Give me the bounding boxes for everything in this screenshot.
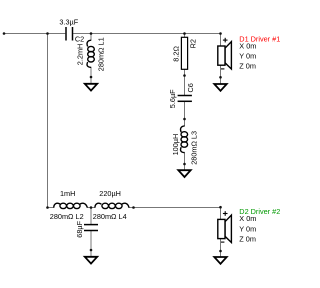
svg-text:X 0m: X 0m: [239, 42, 256, 51]
svg-text:280mΩ L4: 280mΩ L4: [93, 212, 127, 221]
svg-text:220µH: 220µH: [99, 189, 121, 198]
svg-text:1mH: 1mH: [60, 189, 75, 198]
svg-text:Z 0m: Z 0m: [239, 235, 256, 244]
svg-text:280mΩ L1: 280mΩ L1: [97, 37, 106, 71]
svg-text:2.2mH: 2.2mH: [75, 44, 84, 66]
svg-text:5.6µF: 5.6µF: [168, 89, 177, 108]
svg-text:Y 0m: Y 0m: [239, 52, 256, 61]
svg-text:8.2Ω: 8.2Ω: [171, 46, 180, 62]
svg-text:C6: C6: [186, 83, 195, 92]
svg-text:X 0m: X 0m: [239, 214, 256, 223]
svg-text:100µH: 100µH: [171, 134, 180, 156]
svg-text:280mΩ L2: 280mΩ L2: [50, 212, 84, 221]
svg-text:R2: R2: [188, 39, 197, 48]
svg-text:Y 0m: Y 0m: [239, 224, 256, 233]
svg-text:3.3µF: 3.3µF: [59, 18, 78, 27]
svg-text:C2: C2: [75, 34, 84, 43]
svg-text:68µF: 68µF: [75, 220, 84, 237]
svg-text:Z 0m: Z 0m: [239, 62, 256, 71]
svg-text:280mΩ L3: 280mΩ L3: [190, 131, 199, 165]
